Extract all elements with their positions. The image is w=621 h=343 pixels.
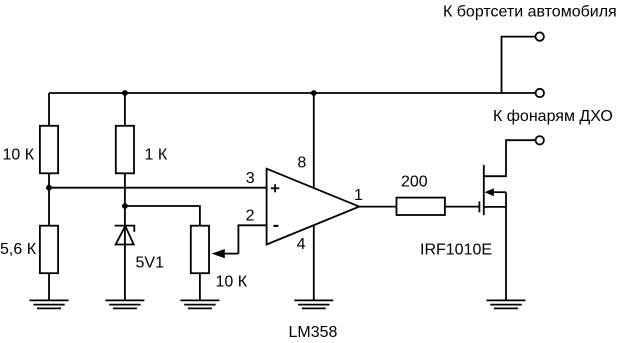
potentiometer R4 wiper arrow xyxy=(212,249,239,258)
svg-text:LM358: LM358 xyxy=(289,324,338,341)
wire left riser to R1 xyxy=(48,93,50,126)
wire R2 bottom to zener and ground xyxy=(124,173,126,300)
svg-text:3: 3 xyxy=(246,170,255,187)
op-amp minus symbol xyxy=(273,225,278,227)
transistor VT1 source connection xyxy=(484,206,506,208)
wire node to potentiometer top xyxy=(125,206,200,226)
svg-text:1: 1 xyxy=(354,187,363,204)
svg-text:1 К: 1 К xyxy=(145,147,168,164)
resistor R3 5,6K xyxy=(40,226,58,274)
zener diode VD1 5V1 xyxy=(115,226,135,245)
terminal XS3 to DRL lamps xyxy=(536,136,544,144)
op-amp U1 LM358 triangle xyxy=(267,169,360,245)
node junction bus/R2 xyxy=(122,90,128,96)
svg-text:5,6 К: 5,6 К xyxy=(0,241,37,258)
transistor VT1 gate bar xyxy=(478,201,480,212)
transistor VT1 drain connection xyxy=(484,140,536,176)
ground G3 xyxy=(180,300,219,308)
transistor VT1 body arrow xyxy=(485,188,506,196)
node junction bus/pin8 xyxy=(311,90,317,96)
node junction R1/R3 divider xyxy=(46,185,52,191)
potentiometer R4 10K body xyxy=(191,226,209,274)
transistor VT1 channel bar xyxy=(483,165,485,215)
svg-text:4: 4 xyxy=(297,236,306,253)
wire op-amp output to R5 xyxy=(359,206,396,208)
ground G2 xyxy=(105,300,144,308)
wire divider node to op-amp non-inverting input xyxy=(49,187,267,189)
wire op-amp pin 4 to ground xyxy=(313,225,315,300)
resistor R5 200 xyxy=(397,198,445,215)
wire wiper to op-amp inverting input xyxy=(238,225,266,253)
wire bus to R2 xyxy=(124,93,126,126)
svg-text:К бортсети автомобиля: К бортсети автомобиля xyxy=(443,4,617,21)
svg-text:10 К: 10 К xyxy=(3,147,35,164)
ground G1 xyxy=(30,300,69,308)
wire source to ground xyxy=(505,192,507,300)
svg-text:8: 8 xyxy=(297,155,306,172)
resistor R2 1K xyxy=(116,126,134,174)
wire R1 bottom to R3 top xyxy=(48,173,50,225)
terminal XS1 to car supply xyxy=(502,32,544,93)
svg-text:200: 200 xyxy=(401,174,428,191)
svg-text:IRF1010E: IRF1010E xyxy=(420,242,492,259)
resistor R1 10K xyxy=(40,126,58,174)
svg-text:К фонарям ДХО: К фонарям ДХО xyxy=(493,108,613,125)
svg-text:2: 2 xyxy=(246,207,255,224)
node junction R2/zener/pot xyxy=(122,203,128,209)
op-amp plus symbol xyxy=(271,184,279,192)
wire op-amp pin 8 to supply xyxy=(313,93,315,188)
svg-text:5V1: 5V1 xyxy=(136,255,165,272)
wire R5 to MOSFET gate xyxy=(445,206,480,208)
wire pot bottom to ground xyxy=(199,273,201,300)
terminal XS2 supply bus xyxy=(536,89,544,97)
wire top supply bus xyxy=(49,92,535,94)
svg-text:10 К: 10 К xyxy=(216,273,248,290)
ground G5 xyxy=(487,300,526,308)
wire R3 bottom to ground xyxy=(48,273,50,300)
ground G4 xyxy=(294,300,333,308)
